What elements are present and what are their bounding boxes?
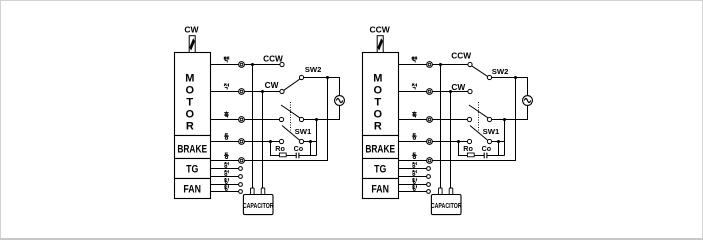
svg-text:CW: CW — [184, 25, 199, 35]
connector ring wire2 (right) — [427, 89, 433, 95]
capacitor box (left) — [243, 195, 273, 215]
switch SW1 pole-b right contact (left) — [299, 139, 303, 143]
wire SW2 pivot to source top (right) — [492, 78, 528, 96]
terminal wire6 (right) — [427, 167, 431, 171]
capacitor lead 1 (left) — [252, 65, 254, 189]
svg-text:R: R — [374, 121, 382, 133]
switch SW1 pole-a left contact (left) — [279, 117, 283, 121]
connector ring wire4 (left) — [239, 139, 245, 145]
connector ring wire5 (left) — [239, 158, 245, 164]
capacitor Co plates (right) — [484, 153, 487, 159]
shaft symbol (right) — [377, 36, 383, 53]
terminal wire8 (left) — [239, 183, 243, 187]
switch SW1 pole-b left contact (left) — [279, 139, 283, 143]
svg-text:FAN: FAN — [371, 184, 389, 196]
switch SW1 pole-a blade (left) — [281, 105, 300, 118]
junction dot wire1-capacitor (left) — [251, 63, 254, 66]
svg-text:CW: CW — [451, 82, 465, 92]
svg-text:T: T — [374, 97, 381, 109]
label 백 (right) — [412, 57, 417, 63]
switch SW1 pole-a left contact (right) — [467, 117, 471, 121]
wire 백 white lead (right) — [399, 64, 471, 66]
wire 청 blue lead 1 (right) — [399, 168, 429, 170]
snubber mid segment (right) — [475, 155, 485, 157]
snubber left leg (left) — [271, 142, 280, 156]
svg-text:CCW: CCW — [369, 25, 390, 35]
snubber left leg (right) — [459, 142, 468, 156]
wire 황 yellow lead 1 (right) — [399, 184, 429, 186]
wire 적 red lead (right) — [399, 91, 471, 93]
capacitor lead 2 (left) — [262, 92, 264, 189]
switch SW1 pole-b blade (left) — [282, 126, 300, 141]
connector ring wire1 (right) — [427, 62, 433, 68]
svg-text:M: M — [185, 72, 194, 84]
wire 흑 black lead (right) — [399, 119, 470, 121]
svg-text:CCW: CCW — [263, 54, 283, 64]
svg-text:O: O — [374, 109, 383, 121]
label 백 (left) — [224, 57, 229, 63]
switch SW1 pole-a blade (right) — [469, 105, 488, 118]
shaft symbol (left) — [189, 36, 195, 53]
brake box (left) — [175, 136, 211, 159]
terminal wire6 (left) — [239, 167, 243, 171]
terminal CCW (left) — [280, 62, 284, 66]
junction dot wire2-capacitor (right) — [449, 90, 452, 93]
label 등 wire4 (right) — [412, 134, 417, 140]
svg-text:CAPACITOR: CAPACITOR — [243, 202, 274, 210]
wire SW1a to source bottom (left) — [304, 105, 340, 119]
svg-text:CAPACITOR: CAPACITOR — [431, 202, 462, 210]
label 청 0 (right) — [412, 162, 416, 167]
svg-text:M: M — [373, 72, 382, 84]
label 황 3 (right) — [412, 185, 417, 191]
capacitor lead 2 (right) — [450, 92, 452, 189]
snubber right rail (right) — [487, 155, 505, 157]
junction dot source-top node (right) — [514, 76, 517, 79]
svg-text:Co: Co — [482, 144, 492, 153]
fan box (right) — [363, 179, 399, 199]
wire 흑 black lead (left) — [211, 119, 282, 121]
switch SW1 pole-a right contact (right) — [487, 117, 491, 121]
switch SW1 pole-a right contact (left) — [299, 117, 303, 121]
wire 등 orange lead 2 (left) — [211, 78, 328, 161]
svg-text:CW: CW — [265, 80, 279, 90]
terminal wire7 (right) — [427, 175, 431, 179]
terminal CW (right) — [468, 89, 472, 93]
junction dot snubber right (right) — [497, 140, 500, 143]
wire 황 yellow lead 1 (left) — [211, 184, 241, 186]
gang link SW1 dashed (right) — [478, 102, 480, 133]
wire SW1b to node (right) — [492, 141, 505, 143]
wire 청 blue lead 2 (left) — [211, 176, 241, 178]
resistor Ro box (right) — [467, 153, 474, 157]
fan box (left) — [175, 179, 211, 199]
shaft stripe (left) — [189, 38, 195, 50]
svg-text:Co: Co — [294, 144, 304, 153]
label 등 wire5 (right) — [412, 153, 417, 159]
svg-text:SW1: SW1 — [295, 127, 312, 136]
wire 적 red lead (left) — [211, 91, 283, 93]
label 등 wire5 (left) — [224, 153, 229, 159]
svg-text:T: T — [186, 97, 193, 109]
snubber riser to line-a (right) — [504, 120, 506, 156]
switch SW1 pole-b right contact (right) — [487, 139, 491, 143]
motor unit outline M (right) — [363, 53, 399, 136]
junction dot snubber left (right) — [457, 140, 460, 143]
connector ring wire3 (right) — [427, 117, 433, 123]
label 적 (left) — [224, 84, 229, 90]
motor label text (left) — [185, 72, 194, 132]
snubber riser to line-b (left) — [310, 142, 312, 156]
shaft stripe (right) — [377, 38, 383, 50]
AC source (right) — [523, 96, 533, 106]
junction dot snubber left (left) — [269, 140, 272, 143]
label 청 1 (right) — [412, 170, 416, 175]
tg box (right) — [363, 159, 399, 179]
switch SW1 pole-b blade (right) — [470, 126, 488, 141]
wire 황 yellow lead 2 (right) — [399, 191, 429, 193]
wire SW1a to source bottom (right) — [492, 105, 528, 119]
connector ring wire2 (left) — [239, 89, 245, 95]
switch SW2 pivot contact (left) — [299, 75, 303, 79]
svg-text:SW1: SW1 — [483, 127, 500, 136]
svg-text:O: O — [186, 109, 195, 121]
capacitor lead 1 (right) — [440, 65, 442, 189]
svg-text:BRAKE: BRAKE — [365, 143, 395, 155]
wire SW1b to node (left) — [304, 141, 317, 143]
label 흑 (right) — [412, 112, 417, 118]
wire 등 orange lead 2 (right) — [399, 78, 516, 161]
capacitor Co plates (left) — [296, 153, 299, 159]
junction dot node line-a (right) — [503, 118, 506, 121]
junction dot wire2-capacitor (left) — [261, 90, 264, 93]
svg-text:R: R — [186, 121, 194, 133]
terminal wire9 (left) — [239, 190, 243, 194]
terminal CCW (right) — [468, 62, 472, 66]
connector ring wire1 (left) — [239, 62, 245, 68]
label 청 0 (left) — [224, 162, 228, 167]
label 청 1 (left) — [224, 170, 228, 175]
label 황 2 (right) — [412, 178, 417, 184]
brake box (right) — [363, 136, 399, 159]
svg-text:O: O — [374, 85, 383, 97]
motor unit outline M (left) — [175, 53, 211, 136]
motor label text (right) — [373, 72, 382, 132]
switch SW2 blade (right) — [472, 66, 488, 77]
wire 청 blue lead 1 (left) — [211, 168, 241, 170]
junction dot node line-a (left) — [315, 118, 318, 121]
connector ring wire4 (right) — [427, 139, 433, 145]
label 황 3 (left) — [224, 185, 229, 191]
capacitor terminal 1 (left) — [251, 188, 255, 195]
terminal wire8 (right) — [427, 183, 431, 187]
capacitor terminal 2 (left) — [261, 188, 265, 195]
snubber riser to line-a (left) — [316, 120, 318, 156]
svg-text:TG: TG — [374, 164, 386, 176]
svg-text:Ro: Ro — [275, 144, 285, 153]
gang link SW1 dashed (left) — [290, 102, 292, 133]
capacitor terminal 2 (right) — [449, 188, 453, 195]
svg-text:SW2: SW2 — [492, 67, 509, 76]
switch SW1 pole-b left contact (right) — [467, 139, 471, 143]
connector ring wire5 (right) — [427, 158, 433, 164]
junction dot source-top node (left) — [326, 76, 329, 79]
svg-text:SW2: SW2 — [305, 65, 322, 74]
svg-text:O: O — [186, 85, 195, 97]
wire 등 orange lead 1 (left) — [211, 141, 282, 143]
snubber right rail (left) — [299, 155, 317, 157]
junction dot snubber right (left) — [309, 140, 312, 143]
svg-text:FAN: FAN — [183, 184, 201, 196]
capacitor box (right) — [431, 195, 461, 215]
switch SW2 blade (left) — [284, 79, 300, 90]
svg-text:BRAKE: BRAKE — [177, 143, 207, 155]
label 황 2 (left) — [224, 178, 229, 184]
capacitor terminal 1 (right) — [439, 188, 443, 195]
AC source (left) — [335, 96, 345, 106]
svg-text:CCW: CCW — [451, 50, 471, 60]
label 등 wire4 (left) — [224, 134, 229, 140]
label 적 (right) — [412, 84, 417, 90]
tg box (left) — [175, 159, 211, 179]
wire 등 orange lead 1 (right) — [399, 141, 470, 143]
wire 청 blue lead 2 (right) — [399, 176, 429, 178]
connector ring wire3 (left) — [239, 117, 245, 123]
wire 백 white lead (left) — [211, 64, 283, 66]
svg-text:Ro: Ro — [463, 144, 473, 153]
terminal wire9 (right) — [427, 190, 431, 194]
junction dot wire1-capacitor (right) — [439, 63, 442, 66]
wire 황 yellow lead 2 (left) — [211, 191, 241, 193]
snubber riser to line-b (right) — [498, 142, 500, 156]
svg-text:TG: TG — [186, 164, 198, 176]
resistor Ro box (left) — [279, 153, 286, 157]
terminal CW (left) — [280, 89, 284, 93]
wire SW2 pivot to source top (left) — [304, 78, 340, 96]
switch SW2 pivot contact (right) — [487, 75, 491, 79]
terminal wire7 (left) — [239, 175, 243, 179]
label 흑 (left) — [224, 112, 229, 118]
snubber mid segment (left) — [287, 155, 297, 157]
